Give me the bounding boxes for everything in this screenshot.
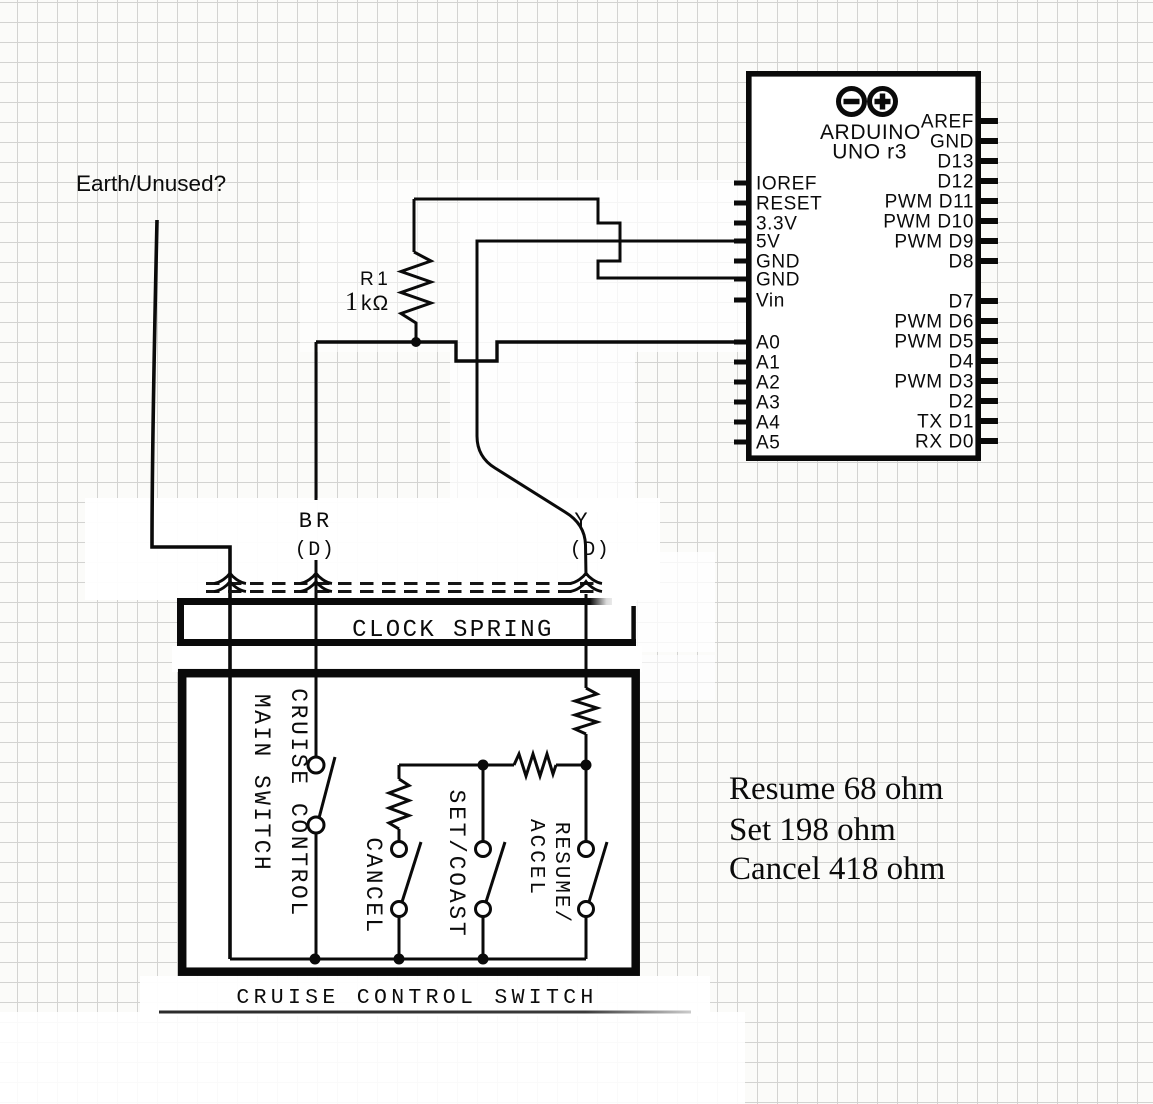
svg-text:5V: 5V	[756, 232, 780, 253]
svg-text:Y: Y	[574, 509, 589, 534]
svg-text:ACCEL: ACCEL	[524, 819, 547, 897]
svg-text:A3: A3	[756, 393, 780, 414]
svg-text:D7: D7	[949, 292, 975, 313]
svg-text:A4: A4	[756, 413, 780, 434]
svg-text:(D): (D)	[570, 539, 611, 562]
svg-text:Set 198 ohm: Set 198 ohm	[729, 812, 896, 848]
svg-text:GND: GND	[756, 270, 800, 291]
svg-text:1: 1	[345, 287, 358, 316]
svg-text:PWM D11: PWM D11	[885, 192, 974, 213]
svg-text:D4: D4	[949, 352, 975, 373]
svg-text:RX D0: RX D0	[915, 432, 974, 453]
svg-text:(D): (D)	[295, 539, 336, 562]
svg-text:AREF: AREF	[921, 112, 974, 133]
svg-text:Cancel 418 ohm: Cancel 418 ohm	[729, 851, 946, 887]
svg-text:PWM D9: PWM D9	[894, 232, 974, 253]
svg-text:IOREF: IOREF	[756, 174, 817, 195]
svg-text:kΩ: kΩ	[361, 292, 389, 315]
svg-text:CANCEL: CANCEL	[360, 837, 386, 934]
svg-text:D2: D2	[949, 392, 975, 413]
svg-text:TX D1: TX D1	[917, 412, 974, 433]
svg-text:R1: R1	[360, 269, 391, 290]
svg-text:SET/COAST: SET/COAST	[443, 790, 469, 939]
svg-text:CLOCK SPRING: CLOCK SPRING	[352, 617, 554, 644]
svg-text:A1: A1	[756, 353, 780, 374]
svg-text:PWM D3: PWM D3	[894, 372, 974, 393]
svg-text:D13: D13	[937, 152, 974, 173]
svg-text:Vin: Vin	[756, 291, 785, 312]
svg-text:BR: BR	[299, 509, 333, 534]
svg-text:CRUISE CONTROL SWITCH: CRUISE CONTROL SWITCH	[236, 986, 597, 1010]
svg-text:PWM D5: PWM D5	[894, 332, 974, 353]
svg-text:RESUME/: RESUME/	[549, 822, 572, 924]
svg-text:PWM D10: PWM D10	[883, 212, 974, 233]
svg-text:GND: GND	[930, 132, 974, 153]
svg-text:CRUISE CONTROL: CRUISE CONTROL	[285, 688, 311, 918]
svg-text:D8: D8	[949, 252, 975, 273]
svg-text:PWM D6: PWM D6	[894, 312, 974, 333]
svg-text:Earth/Unused?: Earth/Unused?	[76, 171, 226, 196]
svg-text:Resume 68 ohm: Resume 68 ohm	[729, 771, 944, 807]
svg-text:A2: A2	[756, 373, 780, 394]
svg-text:UNO r3: UNO r3	[832, 141, 907, 164]
svg-text:RESET: RESET	[756, 194, 822, 215]
svg-text:A5: A5	[756, 433, 780, 454]
svg-text:D12: D12	[937, 172, 974, 193]
svg-text:A0: A0	[756, 333, 780, 354]
svg-text:MAIN SWITCH: MAIN SWITCH	[248, 694, 274, 872]
